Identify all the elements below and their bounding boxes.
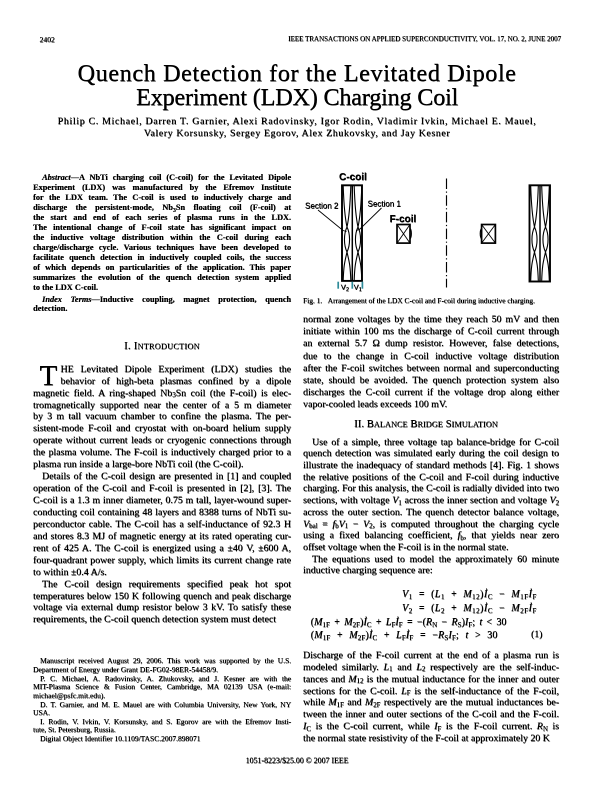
running head [40, 35, 55, 44]
equation 1a [402, 589, 537, 601]
footnotes [33, 657, 291, 743]
right column body 3 [303, 650, 559, 746]
winding pattern right cell 1 [531, 186, 537, 281]
figure caption [303, 296, 559, 305]
abstract [33, 173, 291, 293]
equation 1b [402, 603, 537, 615]
voltage tap tick right [361, 282, 363, 289]
C-coil divider [351, 185, 353, 281]
authors [0, 116, 594, 140]
svg-text:F-coil: F-coil [390, 214, 417, 225]
right column body 2 [303, 437, 559, 578]
leader line Section 1 [356, 208, 382, 231]
svg-text:V2: V2 [341, 283, 349, 294]
right column body 1 [303, 314, 559, 411]
winding pattern left cell 1 [343, 186, 349, 280]
centerline axis [446, 179, 448, 288]
C-coil left rectangle [342, 185, 362, 281]
F-coil left box [397, 225, 410, 244]
svg-text:Section 2: Section 2 [305, 202, 339, 211]
winding pattern right cell 2 [542, 186, 548, 281]
svg-text:V1: V1 [354, 283, 362, 294]
voltage tap tick V2 left [337, 282, 339, 289]
F-coil left bump [410, 229, 411, 239]
section I heading [33, 341, 291, 353]
F-coil right bump [480, 229, 481, 239]
title [0, 62, 594, 108]
voltage tap tick mid [351, 282, 353, 289]
section II heading [298, 419, 554, 431]
C-coil right rectangle [530, 185, 551, 281]
F-coil right box [482, 225, 496, 244]
svg-text:Section 1: Section 1 [368, 200, 402, 209]
equation number [531, 629, 542, 640]
figure 1 drawing [300, 168, 566, 294]
equation 1c [311, 617, 507, 629]
equation 1d [311, 630, 498, 642]
svg-text:C-coil: C-coil [339, 172, 367, 183]
winding pattern left cell 2 [354, 186, 360, 280]
copyright [0, 756, 594, 765]
leader line Section 2 [318, 210, 347, 232]
intro with drop cap [40, 362, 58, 391]
index terms [33, 295, 291, 314]
C-coil right divider [539, 185, 541, 281]
